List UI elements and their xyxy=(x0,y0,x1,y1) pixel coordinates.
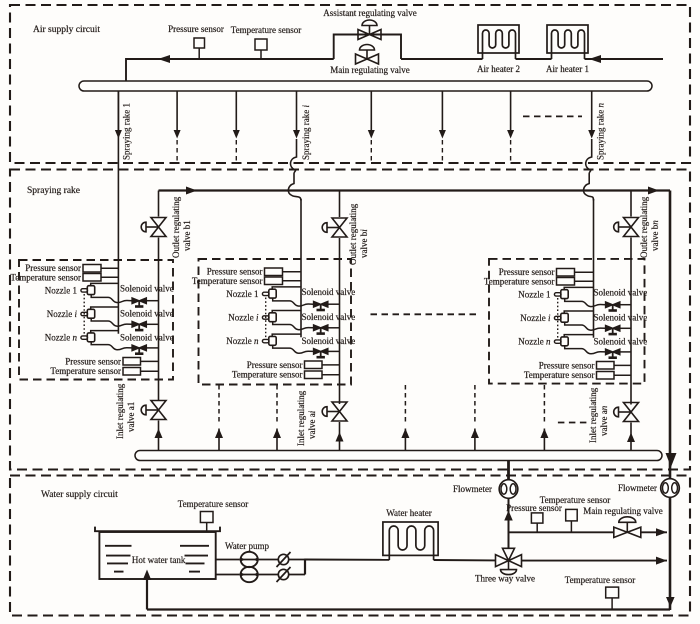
svg-text:Temperature sensor: Temperature sensor xyxy=(524,370,595,380)
svg-text:Temperature sensor: Temperature sensor xyxy=(192,276,263,286)
svg-text:Solenoid valve: Solenoid valve xyxy=(302,287,356,297)
svg-text:Pressure sensor: Pressure sensor xyxy=(168,24,224,34)
svg-text:Temperature sensor: Temperature sensor xyxy=(484,276,555,286)
svg-text:Air supply circuit: Air supply circuit xyxy=(33,25,100,35)
svg-text:Air heater 2: Air heater 2 xyxy=(477,64,520,74)
svg-text:Inlet regulating: Inlet regulating xyxy=(115,383,125,439)
svg-text:Outlet regulating: Outlet regulating xyxy=(348,203,358,265)
svg-text:valve ai: valve ai xyxy=(307,410,317,439)
svg-text:Nozzle n: Nozzle n xyxy=(226,336,259,346)
svg-text:Air heater 1: Air heater 1 xyxy=(546,64,589,74)
svg-text:Pressure sensor: Pressure sensor xyxy=(65,356,121,366)
svg-text:Nozzle n: Nozzle n xyxy=(45,333,78,343)
svg-text:Water pump: Water pump xyxy=(225,541,270,551)
svg-text:Solenoid valve: Solenoid valve xyxy=(302,336,356,346)
svg-text:Spraying rake: Spraying rake xyxy=(27,186,80,196)
svg-text:Inlet regulating: Inlet regulating xyxy=(588,387,598,443)
svg-text:Main regulating valve: Main regulating valve xyxy=(583,506,662,516)
svg-text:Hot water tank: Hot water tank xyxy=(132,555,186,565)
svg-text:Solenoid valve: Solenoid valve xyxy=(120,333,174,343)
svg-text:Solenoid valve: Solenoid valve xyxy=(120,284,174,294)
svg-text:Temperature sensor: Temperature sensor xyxy=(565,575,636,585)
svg-text:Three way valve: Three way valve xyxy=(475,574,535,584)
svg-text:Inlet regulating: Inlet regulating xyxy=(296,390,306,446)
svg-text:Spraying rake 1: Spraying rake 1 xyxy=(122,103,132,160)
svg-text:valve a1: valve a1 xyxy=(126,402,136,432)
svg-text:Temperature sensor: Temperature sensor xyxy=(231,25,302,35)
svg-text:valve b1: valve b1 xyxy=(182,220,192,251)
svg-text:Pressure sensor: Pressure sensor xyxy=(247,360,303,370)
svg-text:Pressure sensor: Pressure sensor xyxy=(539,360,595,370)
svg-text:valve bn: valve bn xyxy=(650,220,660,251)
svg-text:Solenoid valve: Solenoid valve xyxy=(302,312,356,322)
svg-text:valve bi: valve bi xyxy=(359,229,369,258)
svg-text:Flowmeter: Flowmeter xyxy=(618,483,657,493)
svg-text:Nozzle 1: Nozzle 1 xyxy=(45,285,77,295)
svg-text:Nozzle n: Nozzle n xyxy=(518,337,551,347)
svg-text:Outlet regulating: Outlet regulating xyxy=(171,196,181,258)
svg-text:Nozzle i: Nozzle i xyxy=(228,313,259,323)
svg-text:Solenoid valve: Solenoid valve xyxy=(594,313,648,323)
svg-text:Solenoid valve: Solenoid valve xyxy=(120,309,174,319)
svg-text:Water supply circuit: Water supply circuit xyxy=(41,490,118,500)
svg-text:valve an: valve an xyxy=(599,405,609,436)
svg-text:Nozzle 1: Nozzle 1 xyxy=(226,289,258,299)
svg-text:Temperature sensor: Temperature sensor xyxy=(540,495,611,505)
svg-text:Nozzle 1: Nozzle 1 xyxy=(518,289,550,299)
svg-text:Temperature sensor: Temperature sensor xyxy=(178,499,249,509)
svg-text:Flowmeter: Flowmeter xyxy=(453,484,492,494)
svg-text:Temperature sensor: Temperature sensor xyxy=(232,370,303,380)
svg-text:Spraying rake n: Spraying rake n xyxy=(596,103,606,160)
svg-text:Solenoid valve: Solenoid valve xyxy=(594,337,648,347)
svg-text:Temperature sensor: Temperature sensor xyxy=(50,366,121,376)
svg-text:Water heater: Water heater xyxy=(386,508,432,518)
svg-text:Assistant regulating valve: Assistant regulating valve xyxy=(323,8,416,18)
svg-text:Main regulating valve: Main regulating valve xyxy=(330,65,409,75)
svg-text:Spraying rake i: Spraying rake i xyxy=(301,105,311,160)
svg-text:Nozzle i: Nozzle i xyxy=(47,309,78,319)
svg-text:Solenoid valve: Solenoid valve xyxy=(594,288,648,298)
svg-text:Nozzle i: Nozzle i xyxy=(520,313,551,323)
svg-text:Temperature sensor: Temperature sensor xyxy=(10,272,81,282)
svg-text:Outlet regulating: Outlet regulating xyxy=(639,196,649,258)
